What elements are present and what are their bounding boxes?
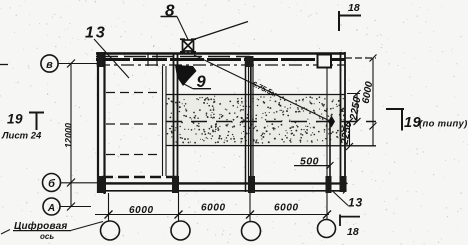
column 4	[329, 121, 331, 192]
svg-text:6000: 6000	[129, 205, 154, 216]
grid bubble 1	[101, 221, 120, 240]
svg-text:6000: 6000	[201, 203, 226, 214]
bottom dimension line	[95, 211, 331, 219]
slab top edge	[166, 94, 345, 96]
right dimension line 2250 lower	[338, 118, 354, 150]
svg-text:18: 18	[348, 2, 360, 14]
grid bubble 3	[242, 222, 261, 241]
chord vertical strokes	[147, 53, 149, 66]
slab bottom edge	[166, 145, 376, 147]
section mark 19 right	[386, 108, 468, 131]
svg-text:6000: 6000	[274, 203, 299, 214]
svg-text:13: 13	[348, 196, 363, 210]
crossed square (embed plate)	[180, 39, 196, 54]
axis circle В	[41, 55, 58, 72]
vertical dimension line 12000	[64, 60, 76, 211]
label 8	[161, 1, 189, 40]
axis line А	[60, 206, 91, 208]
leader up-right from square	[194, 22, 249, 40]
column 4 axis line	[326, 67, 328, 219]
top chord dashed axis	[97, 64, 345, 66]
axis circle А	[43, 198, 60, 215]
svg-text:А: А	[47, 203, 55, 214]
svg-text:в: в	[46, 59, 53, 71]
axis stub 1	[108, 193, 110, 221]
concrete slab tint	[166, 95, 345, 146]
svg-text:12000: 12000	[64, 123, 74, 148]
top chord extra dashed	[96, 56, 250, 58]
svg-text:б: б	[48, 178, 56, 190]
axis line В	[58, 63, 97, 65]
thick dashed beam hidden edge left bay	[102, 176, 178, 179]
svg-text:(по типу): (по типу)	[419, 119, 468, 130]
concrete slab stipple	[167, 96, 345, 144]
grid bubble 2	[171, 221, 190, 240]
beam Б bottom line	[103, 190, 345, 192]
slab mid dashed line	[166, 121, 376, 123]
left wall top crossing	[97, 52, 106, 67]
right dim extension y93	[347, 93, 360, 95]
axis stub 3	[249, 193, 251, 222]
beam end break	[342, 180, 347, 194]
weld blob	[175, 65, 197, 86]
svg-text:19: 19	[7, 112, 23, 127]
section mark 18 bottom right	[340, 215, 360, 239]
label 13 top	[85, 25, 129, 79]
label Цифровая ось	[1, 220, 103, 241]
svg-text:18: 18	[347, 226, 359, 238]
section mark 19 left	[1, 112, 44, 142]
label 9	[184, 73, 211, 91]
left wall	[98, 52, 105, 194]
node diamond	[328, 116, 335, 128]
small square on top chord	[318, 55, 332, 68]
beam column crossings	[97, 176, 347, 193]
grid bubble 4	[318, 220, 336, 238]
svg-text:Лист 24: Лист 24	[1, 131, 42, 142]
top chord line mid	[96, 58, 345, 61]
axis stub 2	[178, 193, 180, 221]
column 3	[245, 56, 254, 192]
svg-text:ось: ось	[40, 232, 54, 241]
section mark 18 top right	[339, 2, 361, 31]
left edge tick	[0, 64, 8, 66]
dimension 500	[294, 156, 334, 170]
right dimension line 6000	[361, 55, 377, 147]
axis circle Б	[43, 174, 61, 192]
long diagonal leader	[194, 55, 331, 122]
axis line Б	[61, 182, 345, 184]
svg-text:13: 13	[85, 25, 107, 42]
extension dashes y58 right	[345, 57, 376, 59]
beam Б top line	[106, 182, 345, 184]
column 2	[163, 53, 178, 192]
right dimension line 2250 upper	[347, 90, 363, 125]
right wall	[341, 52, 346, 192]
top chord line upper	[96, 52, 345, 54]
label 13 bottom right	[332, 191, 363, 210]
hidden dashed lines left bay	[106, 93, 163, 155]
